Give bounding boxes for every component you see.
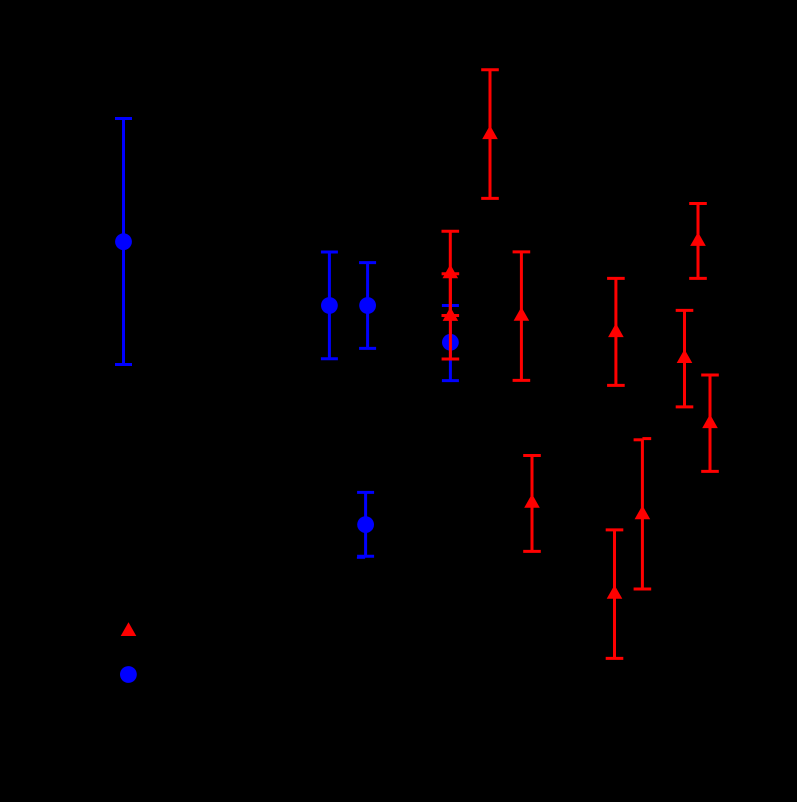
blue point B5 [357, 516, 374, 533]
red error bar R5 [523, 456, 541, 552]
blue point B1 [115, 233, 132, 250]
red error bar R8 [676, 310, 694, 407]
red point R1 [482, 125, 498, 139]
red point R4 [514, 307, 530, 321]
red error bar R9 [701, 375, 719, 471]
red error bar R10 [634, 439, 652, 589]
red point R10 [635, 505, 651, 519]
blue point B3 [359, 297, 376, 314]
legend marker blue circle [120, 666, 137, 683]
blue point B4 [442, 334, 459, 351]
blue error bar B1 [115, 119, 132, 365]
blue error bar B5 [357, 492, 374, 558]
legend marker red triangle [121, 622, 137, 636]
blue error bar B4 [442, 306, 459, 381]
red point R5 [524, 494, 540, 508]
blue point B2 [321, 297, 338, 314]
red error bar R7 [689, 204, 707, 279]
red error bar R2 [442, 231, 460, 315]
red error bar R1 [481, 70, 499, 199]
red error bar R6 [607, 278, 625, 385]
blue error bar B2 [321, 252, 338, 359]
red point R3 [443, 307, 459, 321]
red error bar R4 [513, 252, 531, 381]
red error bar R3 [442, 274, 460, 359]
red point R6 [608, 323, 624, 337]
red error bar R11 [606, 530, 624, 659]
red point R8 [677, 349, 693, 363]
red point R2 [443, 264, 459, 278]
red point R11 [607, 585, 623, 599]
blue error bar B3 [359, 263, 376, 349]
red point R9 [702, 414, 718, 428]
red point R7 [690, 232, 706, 246]
